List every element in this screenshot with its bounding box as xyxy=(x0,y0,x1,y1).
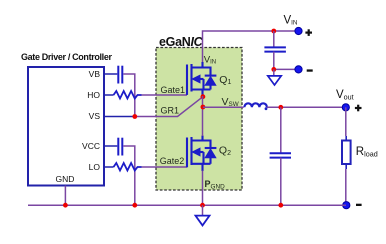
wire C4 to ground rail xyxy=(280,158,282,206)
node VIN junction xyxy=(271,29,276,34)
wire R2 to Gate2 xyxy=(142,166,188,168)
svg-text:VCC: VCC xyxy=(82,141,100,151)
node output cap junction xyxy=(278,105,283,110)
wire node to ground symbol xyxy=(273,69,275,76)
capacitor C3 (input) xyxy=(264,47,286,51)
label + (VIN) xyxy=(305,29,312,36)
wire VIN junction to C3 xyxy=(273,31,275,47)
wire HO pin to R1 xyxy=(104,94,114,96)
resistor Rload xyxy=(342,141,351,165)
label - (Vout) xyxy=(356,204,362,206)
junction C2 / rail xyxy=(132,203,137,208)
wire GND pin to ground rail xyxy=(64,186,66,206)
svg-text:GND: GND xyxy=(56,174,75,184)
label + (Vout) xyxy=(355,105,362,112)
svg-text:Rload: Rload xyxy=(356,146,378,159)
wire VS node to GR1 diagonal xyxy=(135,97,203,117)
wire Vout to Rload xyxy=(345,107,347,136)
wire VSW to inductor xyxy=(203,106,244,108)
inductor L1 xyxy=(244,103,267,110)
svg-text:Gate Driver / Controller: Gate Driver / Controller xyxy=(21,52,112,62)
junction Q2 source / rail xyxy=(200,203,205,208)
wire C2 to ground rail xyxy=(123,146,135,205)
svg-text:HO: HO xyxy=(87,90,100,100)
svg-text:VS: VS xyxy=(89,111,101,121)
wire C3 to minus terminal xyxy=(274,52,298,70)
junction GND pin / rail xyxy=(63,203,68,208)
wire R1 to Gate1 xyxy=(142,94,188,96)
label - (VIN) xyxy=(307,69,313,71)
junction C4 / rail xyxy=(278,203,283,208)
capacitor C2 (VCC bypass) xyxy=(118,138,122,156)
wire VIN rail (top) xyxy=(203,31,299,62)
terminal VIN + xyxy=(295,27,302,34)
terminal VIN - xyxy=(295,66,302,73)
terminal Vout - xyxy=(343,202,350,209)
svg-text:VIN: VIN xyxy=(284,15,298,27)
svg-text:Gate2: Gate2 xyxy=(160,156,185,166)
wire inductor to Vout xyxy=(267,106,346,108)
wire VB pin to C1 xyxy=(104,73,117,75)
wire Q2 source to ground rail xyxy=(202,171,204,206)
wire junction down to C4 xyxy=(280,107,282,153)
wire Rload to minus terminal xyxy=(345,164,347,169)
capacitor C4 (output) xyxy=(270,153,291,157)
transistor Q2 (low-side eGaN FET) xyxy=(187,136,216,172)
eGaN IC green box xyxy=(156,48,242,191)
junction node VS/C1 xyxy=(132,114,137,119)
svg-text:VB: VB xyxy=(89,69,101,79)
transistor Q1 (high-side eGaN FET) xyxy=(187,62,216,97)
terminal Vout + xyxy=(342,104,349,111)
svg-text:Gate1: Gate1 xyxy=(161,85,186,95)
svg-text:GR1: GR1 xyxy=(161,106,180,116)
node SW upper junction (Q1 source / GR1) xyxy=(201,94,206,99)
ground symbol (power ground) xyxy=(196,216,210,226)
wire Q1 source to Q2 drain xyxy=(202,96,204,136)
capacitor C1 (bootstrap) xyxy=(118,66,122,84)
wire VCC pin to C2 xyxy=(104,145,117,147)
ground rail (bottom) xyxy=(28,204,346,206)
wire VS pin xyxy=(104,116,135,118)
gate driver box U1 xyxy=(28,67,104,186)
node SW lower junction (VSW branch) xyxy=(201,105,206,110)
svg-text:LO: LO xyxy=(89,162,101,172)
wire rail to ground symbol xyxy=(202,205,204,215)
wire LO pin to R2 xyxy=(104,166,114,168)
wire C1 to node, down to VS xyxy=(123,74,135,117)
ground symbol (input) xyxy=(268,76,281,85)
node below C3 xyxy=(271,67,276,72)
svg-text:Vout: Vout xyxy=(336,89,354,101)
resistor R2 (low-side gate) xyxy=(114,163,142,171)
svg-text:eGaNIC: eGaNIC xyxy=(159,35,204,49)
resistor R1 (high-side gate) xyxy=(114,91,142,99)
